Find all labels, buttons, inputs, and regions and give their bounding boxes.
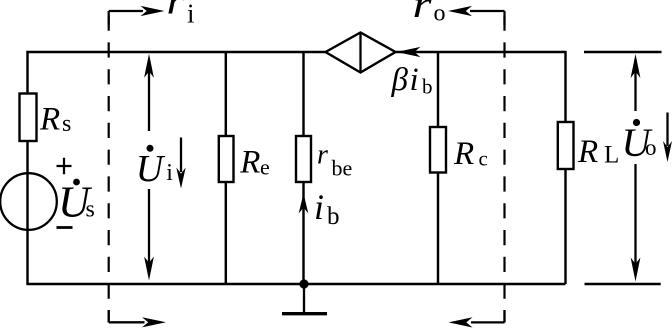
controlled source diamond	[326, 33, 396, 73]
resistor Rc	[430, 127, 446, 173]
label Uo	[633, 119, 640, 126]
svg-text:be: be	[332, 156, 353, 181]
wire top rail right	[396, 51, 566, 53]
arrow into diamond	[397, 47, 421, 57]
svg-text:c: c	[479, 147, 488, 171]
dashed line output port	[503, 11, 505, 322]
wire bottom rail	[26, 283, 565, 285]
Uo long arrow upper	[634, 60, 636, 111]
svg-text:i: i	[314, 187, 324, 227]
Uo long arrow lower	[634, 164, 636, 275]
wire bottom right bar	[585, 283, 661, 285]
wire Rc branch	[437, 52, 439, 284]
minus sign	[57, 226, 73, 229]
Ui long arrow upper	[148, 60, 150, 131]
ib current arrow	[299, 193, 309, 213]
resistor Re	[219, 136, 234, 182]
voltage source Us	[0, 173, 57, 230]
wire RL branch	[564, 51, 566, 284]
ro corner arrow	[470, 10, 505, 12]
svg-text:β: β	[391, 62, 409, 98]
resistor RL	[558, 122, 574, 169]
svg-text:R: R	[239, 145, 260, 181]
svg-text:o: o	[434, 1, 446, 27]
Uo polarity arrow	[666, 113, 668, 147]
wire top rail left	[26, 51, 325, 53]
controlled source diamond internal bar	[359, 33, 361, 73]
svg-text:s: s	[62, 111, 71, 137]
ground stub	[303, 284, 305, 313]
svg-text:r: r	[413, 0, 432, 26]
junction dot	[299, 279, 308, 288]
svg-text:R: R	[453, 136, 474, 172]
Ui long arrow lower	[148, 189, 150, 274]
Ui polarity arrow	[180, 138, 182, 173]
bottom right corner arrow	[471, 321, 505, 323]
svg-text:r: r	[167, 0, 185, 23]
label Us	[73, 179, 80, 186]
svg-text:U: U	[136, 148, 166, 190]
svg-text:R: R	[577, 134, 598, 170]
wire rbe branch	[302, 52, 304, 284]
plus sign	[57, 158, 72, 174]
svg-text:o: o	[645, 135, 657, 160]
ri corner arrow	[109, 10, 143, 12]
svg-text:R: R	[39, 101, 60, 137]
resistor rbe	[296, 136, 311, 182]
svg-text:L: L	[604, 142, 619, 169]
svg-text:s: s	[86, 197, 95, 223]
svg-text:b: b	[422, 75, 433, 99]
dashed line input port	[108, 11, 110, 322]
svg-text:b: b	[327, 203, 340, 230]
ground bar	[282, 312, 327, 315]
resistor Rs	[20, 94, 37, 142]
wire left branch	[26, 51, 28, 284]
svg-text:e: e	[260, 155, 270, 180]
label Ui	[147, 145, 154, 152]
svg-text:i: i	[410, 62, 419, 98]
bottom left corner arrow	[109, 321, 145, 323]
wire Re branch	[225, 52, 227, 284]
wire top right bar	[584, 51, 662, 53]
svg-text:i: i	[166, 160, 173, 186]
svg-text:i: i	[187, 0, 195, 29]
svg-text:r: r	[317, 140, 328, 171]
